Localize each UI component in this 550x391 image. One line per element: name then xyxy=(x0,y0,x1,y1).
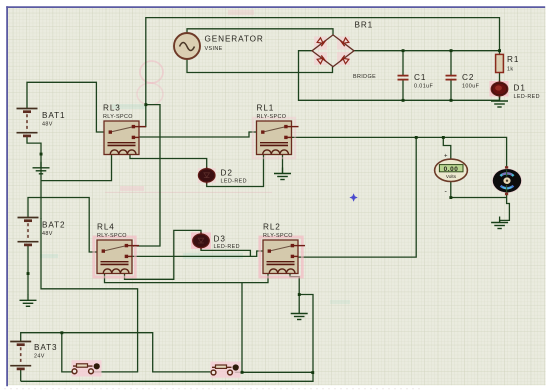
svg-text:RL1: RL1 xyxy=(257,104,275,113)
svg-text:D1: D1 xyxy=(514,84,526,93)
svg-text:LED-RED: LED-RED xyxy=(221,178,247,184)
svg-text:Volts: Volts xyxy=(446,174,457,179)
svg-text:LED-RED: LED-RED xyxy=(214,244,240,250)
svg-text:RL3: RL3 xyxy=(103,104,121,113)
svg-text:RLY-SPCO: RLY-SPCO xyxy=(97,233,127,239)
svg-text:RL4: RL4 xyxy=(97,223,115,232)
svg-text:RLY-SPCO: RLY-SPCO xyxy=(103,114,133,120)
svg-text:LED-RED: LED-RED xyxy=(514,94,540,100)
svg-text:BRIDGE: BRIDGE xyxy=(353,74,376,80)
svg-text:RL2: RL2 xyxy=(263,223,281,232)
svg-text:48V: 48V xyxy=(42,231,53,237)
svg-text:R1: R1 xyxy=(507,55,519,64)
svg-text:VSINE: VSINE xyxy=(205,46,223,52)
svg-text:BAT1: BAT1 xyxy=(42,111,65,120)
svg-text:24V: 24V xyxy=(34,354,45,360)
svg-text:GENERATOR: GENERATOR xyxy=(205,35,264,44)
svg-text:C1: C1 xyxy=(414,73,426,82)
svg-text:100uF: 100uF xyxy=(462,84,480,90)
svg-text:+: + xyxy=(444,154,448,160)
svg-text:BAT3: BAT3 xyxy=(34,343,57,352)
svg-text:1k: 1k xyxy=(507,67,514,73)
svg-text:0.01uF: 0.01uF xyxy=(414,84,433,90)
svg-text:D3: D3 xyxy=(214,235,226,244)
svg-text:C2: C2 xyxy=(462,73,474,82)
svg-text:BR1: BR1 xyxy=(355,21,374,30)
svg-text:BAT2: BAT2 xyxy=(42,221,65,230)
svg-text:D2: D2 xyxy=(221,169,233,178)
svg-text:RLY-SPCO: RLY-SPCO xyxy=(263,233,293,239)
svg-text:48V: 48V xyxy=(42,122,53,128)
svg-text:RLY-SPCO: RLY-SPCO xyxy=(257,114,287,120)
svg-text:0.00: 0.00 xyxy=(444,166,459,173)
